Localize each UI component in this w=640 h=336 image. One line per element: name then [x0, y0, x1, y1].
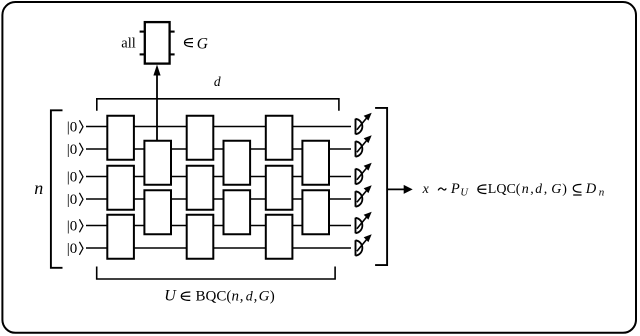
right bracket	[375, 108, 387, 265]
svg-text:|0: |0	[67, 218, 78, 234]
gate column4 gate on q4q5	[224, 190, 251, 234]
wire q5	[86, 225, 351, 227]
svg-text:d: d	[535, 181, 542, 196]
svg-text:): )	[270, 289, 275, 305]
ket |0> label q6	[67, 241, 83, 257]
svg-text:U: U	[460, 187, 469, 198]
svg-text:n: n	[34, 178, 43, 198]
wire q2	[86, 148, 351, 150]
svg-text:all: all	[121, 35, 136, 51]
svg-text:n: n	[522, 182, 529, 197]
svg-text:d: d	[214, 74, 221, 89]
output arrow	[388, 185, 413, 194]
gate column1 gate on q3q4	[107, 166, 134, 210]
svg-text:BQC(: BQC(	[196, 289, 232, 305]
gate column2 gate on q4q5	[144, 190, 171, 234]
label in G	[185, 35, 209, 52]
svg-text:G: G	[551, 182, 561, 197]
svg-text:U: U	[164, 288, 177, 305]
ket |0> label q2	[67, 142, 83, 158]
gate column3 gate on q3q4	[187, 166, 214, 210]
measurement M6	[356, 234, 372, 256]
svg-text:x: x	[422, 182, 430, 197]
measurement M1	[356, 113, 372, 135]
ket |0> label q3	[67, 169, 83, 185]
svg-text:LQC(: LQC(	[488, 182, 521, 197]
svg-text:,: ,	[254, 289, 258, 305]
label U in BQC(n,d,G)	[164, 288, 275, 305]
svg-text:G: G	[259, 289, 270, 305]
gate column3 gate on q5q6	[187, 215, 214, 259]
gate column5 gate on q5q6	[266, 215, 293, 259]
svg-text:d: d	[246, 290, 254, 305]
svg-text:,: ,	[530, 182, 534, 197]
wire q6	[86, 247, 351, 249]
svg-text:,: ,	[240, 289, 244, 305]
svg-text:|0: |0	[67, 142, 78, 158]
top brace d	[97, 99, 339, 111]
svg-text:|0: |0	[67, 192, 78, 208]
all gate symbol	[140, 22, 175, 64]
gate column5 gate on q3q4	[266, 166, 293, 210]
svg-text:): )	[562, 182, 567, 197]
wire q1	[86, 126, 351, 128]
gate column1 gate on q1q2	[107, 116, 134, 160]
svg-text:n: n	[232, 289, 240, 305]
output distribution label x ~ P_U in LQC(n,d,G) subset D_n	[422, 181, 605, 199]
ket |0> label q4	[67, 192, 83, 208]
wire q3	[86, 176, 351, 178]
svg-text:,: ,	[544, 182, 548, 197]
gate column2 gate on q2q3	[144, 141, 171, 185]
svg-text:|0: |0	[67, 119, 78, 135]
svg-text:n: n	[599, 186, 605, 198]
left bracket n	[51, 110, 63, 267]
gate column3 gate on q1q2	[187, 116, 214, 160]
measurement M4	[356, 185, 372, 207]
svg-text:G: G	[197, 35, 208, 52]
gate column6 gate on q2q3	[302, 141, 329, 185]
gate column5 gate on q1q2	[266, 116, 293, 160]
measurement M3	[356, 163, 372, 185]
gate column4 gate on q2q3	[224, 141, 251, 185]
svg-text:P: P	[450, 181, 460, 197]
ket |0> label q1	[67, 119, 83, 135]
bottom brace U	[97, 267, 335, 280]
gate column6 gate on q4q5	[302, 190, 329, 234]
svg-text:|0: |0	[67, 169, 78, 185]
measurement M2	[356, 135, 372, 157]
measurement M5	[356, 212, 372, 234]
arrow from gate to all-gate	[153, 65, 160, 141]
svg-text:D: D	[585, 181, 597, 197]
wire q4	[86, 198, 351, 200]
gate column1 gate on q5q6	[107, 215, 134, 259]
ket |0> label q5	[67, 218, 83, 234]
svg-text:|0: |0	[67, 241, 78, 257]
